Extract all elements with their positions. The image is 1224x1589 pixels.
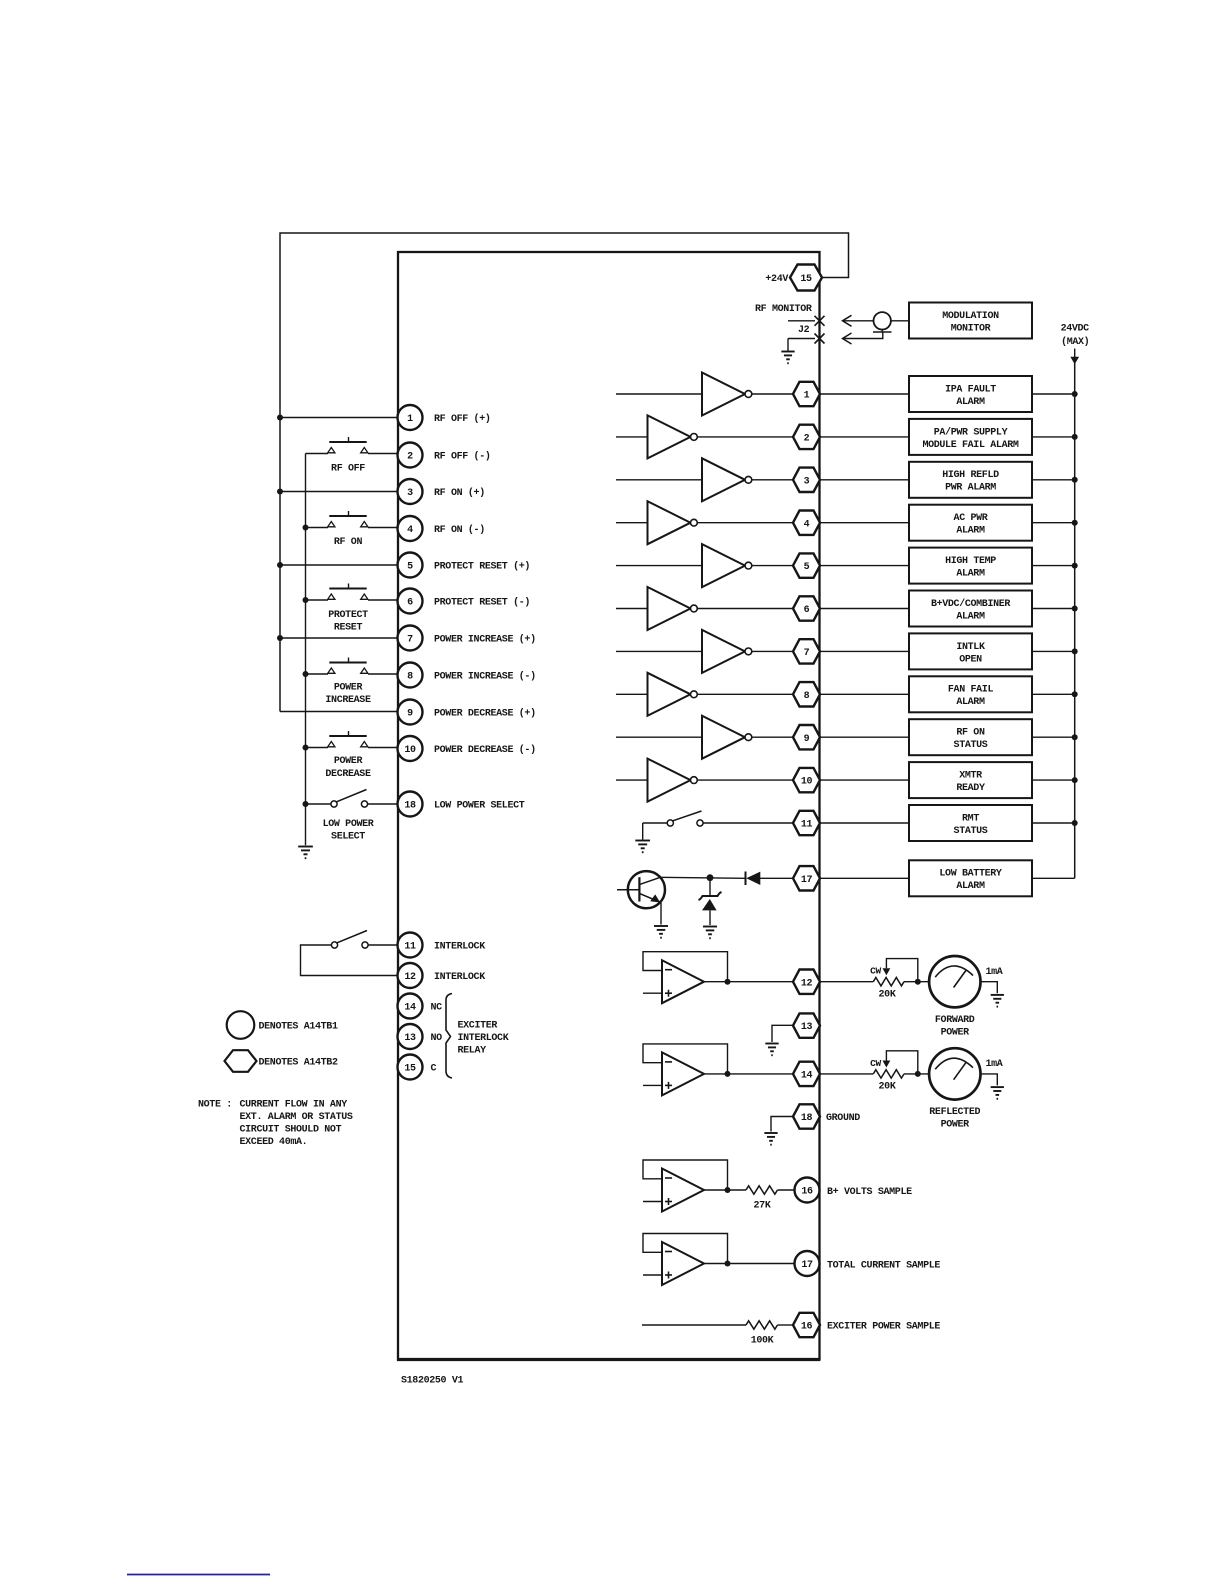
svg-text:RF OFF (+): RF OFF (+) bbox=[434, 413, 491, 425]
svg-text:POWER INCREASE (+): POWER INCREASE (+) bbox=[434, 634, 536, 646]
meter REFLECTED POWER bbox=[929, 1048, 980, 1099]
svg-text:POWER: POWER bbox=[941, 1120, 970, 1131]
box RF ON STATUS bbox=[909, 719, 1032, 755]
svg-text:INCREASE: INCREASE bbox=[325, 695, 371, 706]
wire gate U7 output bbox=[752, 650, 793, 652]
pushbutton switch PROTECT RESET bbox=[328, 584, 368, 600]
svg-text:CW: CW bbox=[870, 966, 881, 977]
wire J2 lower stub bbox=[788, 338, 815, 340]
wire hex 6 to alarm box bbox=[820, 608, 909, 610]
wire POWER DECREASE switch leads bbox=[306, 747, 329, 749]
terminal circle 9 A14TB1 bbox=[398, 700, 423, 725]
wire exciter power sample input bbox=[642, 1324, 746, 1326]
legend circle DENOTES A14TB1 bbox=[227, 1011, 255, 1039]
wire outer top +24V loop bbox=[280, 233, 849, 712]
op-amp buffer for hex 12 bbox=[643, 952, 731, 1004]
terminal hex 2 A14TB2 bbox=[793, 425, 820, 449]
wire gate U9 input bbox=[616, 736, 702, 738]
svg-text:12: 12 bbox=[801, 978, 813, 989]
box AC PWR ALARM bbox=[909, 505, 1032, 541]
svg-text:3: 3 bbox=[407, 488, 413, 499]
svg-text:17: 17 bbox=[801, 875, 813, 886]
svg-text:14: 14 bbox=[801, 1071, 813, 1082]
terminal circle 16 A14TB1 bbox=[795, 1178, 820, 1203]
pushbutton switch RF OFF bbox=[328, 437, 368, 453]
svg-text:CIRCUIT SHOULD NOT: CIRCUIT SHOULD NOT bbox=[240, 1125, 342, 1136]
pushbutton switch POWER INCREASE bbox=[328, 658, 368, 674]
svg-text:15: 15 bbox=[404, 1064, 416, 1075]
junction on 24VDC bus row 7 bbox=[1072, 648, 1078, 654]
blue underline mark bbox=[127, 1574, 270, 1576]
svg-text:RF ON (+): RF ON (+) bbox=[434, 487, 485, 499]
junction on 24VDC bus row 5 bbox=[1072, 563, 1078, 569]
ground at hex 18 bbox=[764, 1133, 777, 1145]
svg-text:DECREASE: DECREASE bbox=[325, 769, 371, 780]
wire modulation monitor upper bbox=[843, 320, 874, 322]
wire hex 9 to alarm box bbox=[820, 736, 909, 738]
svg-text:18: 18 bbox=[404, 801, 416, 812]
svg-text:PROTECT RESET (-): PROTECT RESET (-) bbox=[434, 597, 530, 609]
svg-text:POWER: POWER bbox=[941, 1027, 970, 1038]
junction on 24VDC bus row 6 bbox=[1072, 606, 1078, 612]
svg-text:18: 18 bbox=[801, 1113, 813, 1124]
box HIGH TEMP ALARM bbox=[909, 548, 1032, 584]
wire (+) bus to circle 3 bbox=[280, 491, 397, 493]
wire hex 18 to ground bbox=[771, 1117, 793, 1132]
svg-text:24VDC: 24VDC bbox=[1061, 324, 1090, 335]
wire alarm box 7 to 24VDC bus bbox=[1032, 650, 1075, 652]
svg-text:7: 7 bbox=[407, 635, 413, 646]
transistor Q1 bbox=[617, 871, 665, 908]
junction on 24VDC bus row 11 bbox=[1072, 820, 1078, 826]
svg-text:13: 13 bbox=[801, 1022, 813, 1033]
svg-text:1: 1 bbox=[407, 414, 413, 425]
wire RF OFF switch leads bbox=[306, 453, 329, 455]
svg-text:RESET: RESET bbox=[334, 623, 363, 634]
svg-text:RF MONITOR: RF MONITOR bbox=[755, 304, 812, 315]
ground under J2 bbox=[787, 339, 789, 352]
op-amp buffer for hex 14 bbox=[643, 1044, 731, 1096]
box B+VDC/COMBINER ALARM bbox=[909, 591, 1032, 627]
inverter gate U2 bbox=[648, 415, 698, 458]
box INTLK OPEN bbox=[909, 633, 1032, 669]
junction (-) bus at LOW POWER SELECT bbox=[303, 801, 309, 807]
svg-text:20K: 20K bbox=[879, 989, 896, 1000]
wire potentiometer to meter bbox=[904, 981, 929, 983]
svg-text:17: 17 bbox=[801, 1260, 813, 1271]
terminal hex 6 A14TB2 bbox=[793, 596, 820, 620]
wire hex 3 to alarm box bbox=[820, 479, 909, 481]
svg-text:IPA FAULT: IPA FAULT bbox=[945, 384, 996, 395]
potentiometer 20K row 14 bbox=[870, 1051, 921, 1093]
inverter gate U7 bbox=[702, 630, 752, 673]
wire alarm box 6 to 24VDC bus bbox=[1032, 608, 1075, 610]
svg-text:PROTECT: PROTECT bbox=[328, 610, 368, 621]
svg-text:POWER INCREASE (-): POWER INCREASE (-) bbox=[434, 671, 536, 683]
wire hex 10 to alarm box bbox=[820, 779, 909, 781]
terminal circle 14 A14TB1 bbox=[398, 994, 423, 1019]
terminal hex 12 A14TB2 bbox=[793, 970, 820, 994]
ground below zener bbox=[703, 927, 717, 939]
svg-text:STATUS: STATUS bbox=[954, 740, 988, 751]
switch INTERLOCK bbox=[331, 931, 397, 949]
wire gate U5 output bbox=[752, 565, 793, 567]
terminal hex 14 A14TB2 bbox=[793, 1062, 820, 1086]
terminal hex 18 A14TB2 bbox=[793, 1104, 820, 1128]
box RMT STATUS bbox=[909, 805, 1032, 841]
wire gate U2 input bbox=[616, 436, 648, 438]
svg-text:J2: J2 bbox=[798, 325, 810, 336]
terminal hex 3 A14TB2 bbox=[793, 468, 820, 492]
pushbutton switch RF ON bbox=[328, 511, 368, 527]
svg-text:6: 6 bbox=[407, 598, 413, 609]
ground right of meter bbox=[991, 1087, 1004, 1099]
svg-text:16: 16 bbox=[801, 1322, 813, 1333]
wire (+) bus to circle 7 bbox=[280, 637, 397, 639]
terminal hex 10 A14TB2 bbox=[793, 768, 820, 792]
wire alarm box 3 to 24VDC bus bbox=[1032, 479, 1075, 481]
svg-text:NO: NO bbox=[431, 1033, 443, 1044]
junction (-) bus at POWER DECREASE bbox=[303, 745, 309, 751]
svg-text:2: 2 bbox=[804, 434, 810, 445]
svg-text:8: 8 bbox=[407, 672, 413, 683]
wire gate U3 input bbox=[616, 479, 702, 481]
24VDC supply arrow bbox=[1074, 349, 1076, 358]
svg-text:16: 16 bbox=[801, 1187, 813, 1198]
svg-text:MONITOR: MONITOR bbox=[951, 323, 991, 334]
svg-text:TOTAL CURRENT SAMPLE: TOTAL CURRENT SAMPLE bbox=[827, 1261, 940, 1272]
junction on 24VDC bus row 10 bbox=[1072, 777, 1078, 783]
junction (-) bus at POWER INCREASE bbox=[303, 671, 309, 677]
svg-text:2: 2 bbox=[407, 452, 413, 463]
junction on 24VDC bus row 4 bbox=[1072, 520, 1078, 526]
svg-text:EXT. ALARM OR STATUS: EXT. ALARM OR STATUS bbox=[240, 1112, 353, 1123]
svg-text:15: 15 bbox=[800, 274, 812, 285]
wire alarm box 4 to 24VDC bus bbox=[1032, 522, 1075, 524]
svg-text:INTERLOCK: INTERLOCK bbox=[434, 942, 485, 953]
wire alarm box 8 to 24VDC bus bbox=[1032, 693, 1075, 695]
box PA/PWR SUPPLY MODULE FAIL ALARM bbox=[909, 419, 1032, 455]
wire (+) bus corner to circle 9 bbox=[280, 711, 397, 713]
inverter gate U9 bbox=[702, 716, 752, 759]
svg-text:LOW POWER SELECT: LOW POWER SELECT bbox=[434, 801, 525, 812]
svg-text:NC: NC bbox=[431, 1003, 443, 1014]
box MODULATION MONITOR bbox=[909, 303, 1032, 339]
inverter gate U3 bbox=[702, 458, 752, 501]
wire alarm box 9 to 24VDC bus bbox=[1032, 736, 1075, 738]
svg-text:HIGH REFLD: HIGH REFLD bbox=[942, 470, 999, 481]
svg-text:1mA: 1mA bbox=[986, 967, 1003, 978]
terminal circle 3 A14TB1 bbox=[398, 479, 423, 504]
svg-text:B+ VOLTS SAMPLE: B+ VOLTS SAMPLE bbox=[827, 1187, 912, 1198]
arrow into J2 upper bbox=[843, 315, 852, 326]
connector X upper bbox=[815, 316, 825, 326]
svg-text:ALARM: ALARM bbox=[956, 611, 985, 622]
junction on 24VDC bus row 9 bbox=[1072, 734, 1078, 740]
terminal hex 7 A14TB2 bbox=[793, 639, 820, 663]
wire 24VDC bus bbox=[1074, 362, 1076, 878]
wire RF ON switch leads bbox=[306, 527, 329, 529]
bracket exciter interlock relay bbox=[446, 994, 452, 1079]
wire gate U9 output bbox=[752, 736, 793, 738]
svg-text:LOW POWER: LOW POWER bbox=[323, 819, 374, 830]
connector X lower bbox=[815, 334, 825, 344]
terminal circle 5 A14TB1 bbox=[398, 553, 423, 578]
svg-text:11: 11 bbox=[801, 820, 813, 831]
legend hexagon DENOTES A14TB2 bbox=[225, 1050, 257, 1072]
terminal circle 13 A14TB1 bbox=[398, 1024, 423, 1049]
svg-text:100K: 100K bbox=[751, 1336, 774, 1347]
svg-text:(MAX): (MAX) bbox=[1061, 336, 1089, 348]
svg-text:POWER: POWER bbox=[334, 756, 363, 767]
wire gate U10 input bbox=[616, 779, 648, 781]
svg-text:FORWARD: FORWARD bbox=[935, 1015, 975, 1026]
wire LOW BATTERY box to 24VDC bus bbox=[1032, 877, 1075, 879]
wire hex 17 to LOW BATTERY box bbox=[820, 877, 909, 879]
svg-text:ALARM: ALARM bbox=[956, 881, 985, 892]
wire gate U2 output bbox=[697, 436, 793, 438]
meter FORWARD POWER bbox=[929, 956, 980, 1007]
svg-text:3: 3 bbox=[804, 476, 810, 487]
junction on 24VDC bus row 3 bbox=[1072, 477, 1078, 483]
terminal circle 1 A14TB1 bbox=[398, 405, 423, 430]
wire hex 13 to ground bbox=[772, 1025, 793, 1042]
svg-text:ALARM: ALARM bbox=[956, 397, 985, 408]
svg-text:POWER DECREASE (-): POWER DECREASE (-) bbox=[434, 744, 536, 756]
svg-text:B+VDC/COMBINER: B+VDC/COMBINER bbox=[931, 598, 1010, 610]
svg-text:POWER: POWER bbox=[334, 683, 363, 694]
wire hex 11 to RMT STATUS box bbox=[820, 822, 909, 824]
switch LOW POWER SELECT bbox=[306, 790, 398, 808]
inner box thick bottom edge bbox=[397, 1358, 820, 1361]
svg-text:C: C bbox=[431, 1064, 437, 1075]
svg-text:RF ON: RF ON bbox=[334, 537, 363, 548]
svg-text:INTLK: INTLK bbox=[956, 642, 985, 653]
svg-text:POWER DECREASE (+): POWER DECREASE (+) bbox=[434, 708, 536, 720]
svg-text:5: 5 bbox=[804, 562, 810, 573]
wire op-amp to hex 14 bbox=[728, 1073, 794, 1075]
resistor 100K bbox=[746, 1321, 778, 1329]
terminal circle 12 A14TB1 bbox=[398, 963, 423, 988]
wire (-) common bus bbox=[305, 454, 307, 846]
ground at hex 13 bbox=[765, 1044, 778, 1056]
wire resistor to circle 16 bbox=[778, 1189, 795, 1191]
wire hex 14 to potentiometer bbox=[820, 1073, 873, 1075]
junction on 24VDC bus row 8 bbox=[1072, 691, 1078, 697]
wire RMT switch to hex 11 bbox=[703, 822, 793, 824]
svg-text:SELECT: SELECT bbox=[331, 832, 365, 843]
svg-text:13: 13 bbox=[404, 1033, 416, 1044]
svg-text:LOW BATTERY: LOW BATTERY bbox=[939, 869, 1002, 880]
svg-text:RF OFF: RF OFF bbox=[331, 464, 365, 475]
wire hex 5 to alarm box bbox=[820, 565, 909, 567]
svg-text:10: 10 bbox=[404, 745, 416, 756]
inverter gate U8 bbox=[648, 673, 698, 716]
terminal hex 15 (+24V) A14TB2 bbox=[790, 265, 822, 291]
svg-text:12: 12 bbox=[404, 972, 416, 983]
svg-text:NOTE :: NOTE : bbox=[198, 1100, 232, 1111]
wire PROTECT RESET switch leads bbox=[306, 599, 329, 601]
terminal hex 13 A14TB2 bbox=[793, 1013, 820, 1037]
wire hex 2 to alarm box bbox=[820, 436, 909, 438]
ground right of meter bbox=[991, 995, 1004, 1007]
svg-text:RF ON (-): RF ON (-) bbox=[434, 524, 485, 536]
wire gate U5 input bbox=[616, 565, 702, 567]
svg-text:CW: CW bbox=[870, 1058, 881, 1069]
wire gate U6 output bbox=[697, 608, 793, 610]
svg-text:7: 7 bbox=[804, 648, 810, 659]
box HIGH REFLD PWR ALARM bbox=[909, 462, 1032, 498]
terminal hex 5 A14TB2 bbox=[793, 553, 820, 577]
wire op-amp to resistor 27K bbox=[728, 1189, 747, 1191]
terminal circle 18 A14TB1 bbox=[398, 792, 423, 817]
svg-text:MODULE FAIL ALARM: MODULE FAIL ALARM bbox=[922, 440, 1018, 451]
svg-text:HIGH TEMP: HIGH TEMP bbox=[945, 556, 996, 567]
ground at bottom of (-) bus bbox=[298, 847, 313, 859]
arrow into J2 lower bbox=[843, 333, 852, 344]
junction (-) bus at PROTECT RESET bbox=[303, 597, 309, 603]
svg-text:1mA: 1mA bbox=[986, 1059, 1003, 1070]
svg-text:ALARM: ALARM bbox=[956, 697, 985, 708]
wire gate U4 output bbox=[697, 522, 793, 524]
terminal circle 11 A14TB1 bbox=[398, 933, 423, 958]
box LOW BATTERY ALARM bbox=[909, 860, 1032, 896]
svg-text:OPEN: OPEN bbox=[959, 654, 982, 665]
ground below transistor emitter bbox=[660, 903, 662, 925]
zener diode VR1 bbox=[699, 878, 722, 925]
wire hex 7 to alarm box bbox=[820, 650, 909, 652]
inverter gate U6 bbox=[648, 587, 698, 630]
svg-text:MODULATION: MODULATION bbox=[942, 311, 999, 322]
wire collector to diode bbox=[659, 877, 745, 878]
svg-text:S1820250 V1: S1820250 V1 bbox=[401, 1376, 464, 1387]
resistor 27K bbox=[746, 1186, 778, 1194]
svg-text:EXCITER: EXCITER bbox=[458, 1021, 498, 1032]
svg-text:RMT: RMT bbox=[962, 813, 979, 824]
svg-text:27K: 27K bbox=[754, 1201, 771, 1212]
wire gate U8 output bbox=[697, 693, 793, 695]
svg-text:AC PWR: AC PWR bbox=[954, 513, 988, 524]
svg-text:READY: READY bbox=[956, 783, 985, 794]
terminal hex 4 A14TB2 bbox=[793, 511, 820, 535]
svg-text:DENOTES A14TB1: DENOTES A14TB1 bbox=[259, 1022, 338, 1033]
junction (-) bus at RF ON bbox=[303, 525, 309, 531]
svg-text:PWR ALARM: PWR ALARM bbox=[945, 483, 996, 494]
wire resistor 100K to hex 16 bbox=[778, 1324, 794, 1326]
svg-text:REFLECTED: REFLECTED bbox=[929, 1107, 980, 1118]
svg-text:GROUND: GROUND bbox=[826, 1113, 860, 1124]
jack circle on modulation monitor line bbox=[874, 312, 891, 329]
wire modulation monitor lower bbox=[843, 332, 883, 339]
wire (+) bus to circle 1 bbox=[280, 417, 397, 419]
inverter gate U4 bbox=[648, 501, 698, 544]
wire gate U3 output bbox=[752, 479, 793, 481]
pushbutton switch POWER DECREASE bbox=[328, 731, 368, 747]
svg-text:INTERLOCK: INTERLOCK bbox=[458, 1033, 509, 1044]
wire alarm box 10 to 24VDC bus bbox=[1032, 779, 1075, 781]
wire meter to ground bbox=[981, 1074, 998, 1086]
wire hex 8 to alarm box bbox=[820, 693, 909, 695]
inverter gate U10 bbox=[648, 759, 698, 802]
switch remote status contact bbox=[643, 811, 703, 826]
wire hex 4 to alarm box bbox=[820, 522, 909, 524]
junction on 24VDC bus row 1 bbox=[1072, 391, 1078, 397]
terminal hex 9 A14TB2 bbox=[793, 725, 820, 749]
inverter gate U5 bbox=[702, 544, 752, 587]
terminal hex 8 A14TB2 bbox=[793, 682, 820, 706]
svg-text:1: 1 bbox=[804, 391, 810, 402]
wire POWER INCREASE switch leads bbox=[306, 673, 329, 675]
wire alarm box 1 to 24VDC bus bbox=[1032, 393, 1075, 395]
wire alarm box 2 to 24VDC bus bbox=[1032, 436, 1075, 438]
junction at zener bbox=[707, 874, 714, 881]
wire gate U4 input bbox=[616, 522, 648, 524]
ground below RMT switch bbox=[642, 823, 644, 840]
wire RMT STATUS box to 24VDC bus bbox=[1032, 822, 1075, 824]
wire op-amp to circle 17 bbox=[728, 1263, 795, 1265]
svg-text:ALARM: ALARM bbox=[956, 526, 985, 537]
svg-text:11: 11 bbox=[404, 942, 416, 953]
wire diode to hex 17 bbox=[760, 877, 793, 879]
terminal circle 10 A14TB1 bbox=[398, 736, 423, 761]
potentiometer 20K row 12 bbox=[870, 959, 921, 1001]
wire gate U7 input bbox=[616, 650, 702, 652]
terminal circle 7 A14TB1 bbox=[398, 626, 423, 651]
wire gate U6 input bbox=[616, 608, 648, 610]
wire J2 upper stub bbox=[788, 320, 815, 322]
svg-text:RF OFF (-): RF OFF (-) bbox=[434, 451, 491, 463]
svg-text:INTERLOCK: INTERLOCK bbox=[434, 972, 485, 983]
wire op-amp to hex 12 bbox=[728, 981, 794, 983]
svg-text:EXCITER POWER SAMPLE: EXCITER POWER SAMPLE bbox=[827, 1322, 940, 1333]
svg-text:14: 14 bbox=[404, 1003, 416, 1014]
wire gate U8 input bbox=[616, 693, 648, 695]
svg-text:ALARM: ALARM bbox=[956, 569, 985, 580]
svg-text:RELAY: RELAY bbox=[458, 1046, 487, 1057]
wire gate U10 output bbox=[697, 779, 793, 781]
svg-text:PROTECT RESET (+): PROTECT RESET (+) bbox=[434, 561, 530, 573]
terminal hex 11 A14TB2 bbox=[793, 811, 820, 835]
svg-text:+24V: +24V bbox=[765, 274, 788, 285]
wire alarm box 5 to 24VDC bus bbox=[1032, 565, 1075, 567]
svg-text:PA/PWR SUPPLY: PA/PWR SUPPLY bbox=[934, 426, 1008, 438]
terminal circle 17 A14TB1 bbox=[795, 1251, 820, 1276]
box IPA FAULT ALARM bbox=[909, 376, 1032, 412]
terminal circle 8 A14TB1 bbox=[398, 663, 423, 688]
wire potentiometer to meter bbox=[904, 1073, 929, 1075]
svg-text:RF ON: RF ON bbox=[956, 728, 985, 739]
svg-text:4: 4 bbox=[804, 519, 810, 530]
svg-text:20K: 20K bbox=[879, 1082, 896, 1093]
op-amp buffer for terminal 16 bbox=[643, 1160, 731, 1212]
terminal circle 6 A14TB1 bbox=[398, 589, 423, 614]
svg-text:XMTR: XMTR bbox=[959, 771, 982, 782]
terminal circle 2 A14TB1 bbox=[398, 443, 423, 468]
wire interlock loop bbox=[301, 945, 398, 976]
wire gate U1 input bbox=[616, 393, 702, 395]
wire gate U1 output bbox=[752, 393, 793, 395]
svg-text:DENOTES A14TB2: DENOTES A14TB2 bbox=[259, 1058, 338, 1069]
inner interface box A14 bbox=[398, 252, 820, 1360]
svg-text:5: 5 bbox=[407, 562, 413, 573]
terminal hex 1 A14TB2 bbox=[793, 382, 820, 406]
svg-text:EXCEED 40mA.: EXCEED 40mA. bbox=[240, 1137, 308, 1148]
inverter gate U1 bbox=[702, 373, 752, 416]
svg-text:9: 9 bbox=[407, 709, 413, 720]
svg-text:8: 8 bbox=[804, 691, 810, 702]
terminal circle 15 A14TB1 bbox=[398, 1055, 423, 1080]
wire hex 1 to alarm box bbox=[820, 393, 909, 395]
